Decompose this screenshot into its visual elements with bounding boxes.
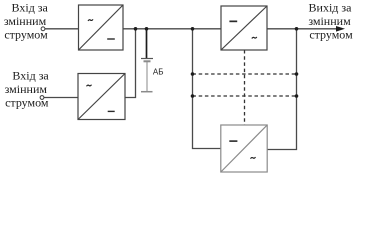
svg-text:Вхід за: Вхід за bbox=[12, 68, 49, 82]
svg-text:струмом: струмом bbox=[309, 28, 353, 42]
svg-text:струмом: струмом bbox=[4, 28, 48, 42]
svg-text:струмом: струмом bbox=[5, 95, 49, 109]
svg-text:змінним: змінним bbox=[4, 14, 47, 28]
svg-text:АБ: АБ bbox=[153, 68, 164, 77]
svg-text:змінним: змінним bbox=[308, 14, 351, 28]
svg-text:змінним: змінним bbox=[5, 82, 48, 96]
svg-text:Вихід за: Вихід за bbox=[309, 1, 353, 15]
svg-text:Вхід за: Вхід за bbox=[12, 1, 49, 15]
